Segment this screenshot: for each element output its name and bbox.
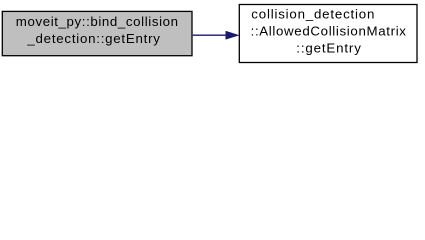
node: collision_detection::AllowedCollisionMatrix::getEntry (callee, white) xyxy=(239,5,417,63)
node: moveit_py::bind_collision_detection::getEntry (caller, gray) xyxy=(2,11,192,55)
svg-text:collision_detection: collision_detection xyxy=(251,7,375,22)
svg-text:_detection::getEntry: _detection::getEntry xyxy=(26,31,160,46)
svg-text:::AllowedCollisionMatrix: ::AllowedCollisionMatrix xyxy=(251,24,407,39)
edge arrow xyxy=(193,32,238,39)
svg-text:::getEntry: ::getEntry xyxy=(296,40,361,55)
svg-text:moveit_py::bind_collision: moveit_py::bind_collision xyxy=(16,14,179,29)
